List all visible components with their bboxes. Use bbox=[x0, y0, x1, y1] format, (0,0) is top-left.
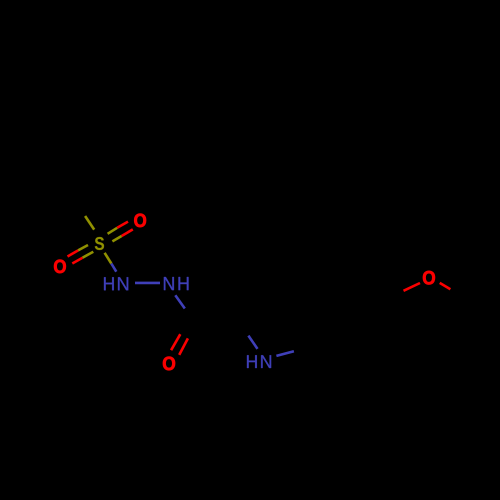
bond S-N1 bbox=[105, 253, 117, 272]
atom indole N1H bbox=[261, 355, 271, 368]
bond S=O left line2 bbox=[72, 252, 93, 264]
atom N1 (sulfonohydrazide NH) bbox=[118, 277, 128, 290]
bond methoxy O-CH3 (oxygen half) bbox=[440, 283, 451, 289]
atom S (sulfonyl) bbox=[95, 237, 104, 250]
atom indole N H label bbox=[247, 355, 257, 368]
atom O methoxy bbox=[423, 271, 435, 285]
bond S-CH3 (sulfur half) bbox=[85, 216, 94, 230]
bond S=O right line1 bbox=[108, 222, 128, 234]
bond C=O carbonyl line2 (oxygen half) bbox=[179, 338, 188, 355]
atom N2 H label bbox=[178, 277, 188, 290]
atom N2 (hydrazide NH) bbox=[164, 277, 174, 290]
bond S=O right line2 bbox=[112, 229, 132, 241]
bond S=O left line1 bbox=[68, 245, 89, 257]
atom O carbonyl bbox=[163, 357, 175, 371]
atom N1 H label bbox=[104, 277, 114, 290]
atom O sulfonyl left bbox=[54, 260, 66, 273]
bond C=O carbonyl line1 (oxygen half) bbox=[171, 334, 180, 350]
bond indole N-C2 (nitrogen half) bbox=[248, 336, 257, 349]
bond N2-C carbonyl (nitrogen half) bbox=[175, 295, 185, 308]
atom O sulfonyl right bbox=[134, 214, 146, 227]
bond N1-N2 bbox=[135, 282, 160, 285]
bond methoxy O-C5 (oxygen half) bbox=[404, 283, 421, 291]
bond indole N-C7a (nitrogen half) bbox=[276, 351, 294, 356]
